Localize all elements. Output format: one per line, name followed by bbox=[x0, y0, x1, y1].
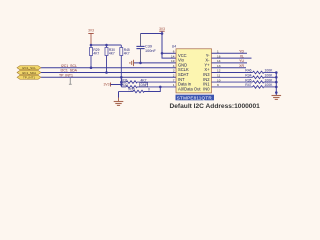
pin names U4 left bbox=[178, 53, 201, 92]
junction rail R31 bbox=[120, 81, 123, 84]
resistor R34 bbox=[212, 76, 277, 79]
highlight STMPE811QTR bbox=[176, 95, 215, 101]
pin numbers U4 left bbox=[171, 50, 175, 88]
cursor artifact bbox=[69, 78, 72, 84]
power 3V3 P3 bbox=[103, 83, 110, 87]
wire 3V3 flag to rail bbox=[111, 84, 122, 86]
resistor R29 bbox=[90, 45, 93, 68]
IC U4 bbox=[176, 49, 212, 93]
svg-text:6: 6 bbox=[173, 50, 175, 54]
svg-text:3V3: 3V3 bbox=[103, 83, 109, 87]
svg-text:R32: R32 bbox=[122, 83, 128, 87]
svg-text:C39: C39 bbox=[145, 44, 152, 48]
wire cap top bbox=[141, 33, 163, 35]
wire top rail bbox=[91, 44, 121, 46]
svg-text:14: 14 bbox=[171, 54, 175, 58]
junction R45/INT bbox=[120, 76, 123, 79]
junction R47 bbox=[275, 86, 278, 89]
svg-text:STMPE811QTR: STMPE811QTR bbox=[177, 95, 213, 100]
pin numbers U4 right bbox=[217, 50, 221, 88]
wire 3V3 vertical to VCC/Vio bbox=[162, 31, 176, 58]
wire X+ to XR bbox=[212, 67, 247, 69]
svg-text:3V3: 3V3 bbox=[159, 27, 165, 31]
svg-text:TP_INT1: TP_INT1 bbox=[23, 76, 35, 80]
svg-text:Default I2C Address:1000001: Default I2C Address:1000001 bbox=[170, 103, 261, 110]
wire Y- to YD bbox=[212, 52, 248, 54]
junction cap bottom bbox=[139, 62, 142, 65]
wire I2C1_SDA line bbox=[41, 72, 176, 74]
svg-text:100K: 100K bbox=[265, 74, 274, 78]
wire Y+ to YU bbox=[212, 62, 248, 64]
svg-text:100nF: 100nF bbox=[145, 49, 156, 53]
svg-text:U4: U4 bbox=[172, 45, 176, 49]
junction R30/SDA bbox=[105, 71, 108, 74]
svg-text:R46: R46 bbox=[245, 69, 251, 73]
wire TP_INT1 line bbox=[41, 76, 176, 78]
wire I2C1_SCL line bbox=[41, 67, 176, 69]
wire A0 strap rail bbox=[120, 77, 122, 87]
resistor R30 bbox=[105, 45, 108, 73]
resistor R33 bbox=[119, 87, 161, 93]
svg-text:0: 0 bbox=[148, 88, 150, 92]
resistor R31 bbox=[121, 81, 176, 84]
junction rail 3V3 flag bbox=[120, 83, 123, 86]
svg-text:100K: 100K bbox=[265, 69, 274, 73]
svg-text:I2C1_SCL: I2C1_SCL bbox=[61, 64, 77, 68]
svg-text:R47: R47 bbox=[245, 83, 251, 87]
svg-text:R31: R31 bbox=[122, 78, 128, 82]
svg-text:R35: R35 bbox=[245, 78, 251, 82]
resistor R35 bbox=[212, 81, 277, 84]
junction R35 bbox=[275, 81, 278, 84]
pin names U4 right bbox=[203, 53, 210, 92]
svg-text:TP_INT1: TP_INT1 bbox=[59, 73, 73, 77]
svg-text:I2C1_SDA: I2C1_SDA bbox=[22, 71, 36, 75]
svg-text:4K7: 4K7 bbox=[93, 52, 99, 56]
svg-text:R34: R34 bbox=[245, 74, 251, 78]
resistor R46 bbox=[212, 71, 277, 74]
junction R34 bbox=[275, 76, 278, 79]
wire right common vertical bbox=[275, 73, 277, 96]
svg-text:4: 4 bbox=[173, 64, 175, 68]
svg-text:R33: R33 bbox=[129, 88, 135, 92]
junction VCC bbox=[161, 52, 164, 55]
svg-text:IN0: IN0 bbox=[203, 86, 210, 91]
wire VCC stub bbox=[162, 52, 176, 54]
svg-text:I2C1_SCL: I2C1_SCL bbox=[22, 66, 36, 70]
power 3V3 P2 bbox=[159, 27, 165, 31]
port I2C1_SDA bbox=[17, 70, 41, 74]
junction cap top rail bbox=[161, 32, 164, 35]
junction R29/SCL bbox=[90, 66, 93, 69]
power 3V3 P1 bbox=[88, 29, 94, 46]
svg-text:XR: XR bbox=[239, 64, 244, 68]
junction R46 bbox=[275, 71, 278, 74]
wire GND rail bbox=[134, 62, 177, 64]
ground G3 bbox=[114, 102, 124, 106]
junction on rail at R29 bbox=[90, 44, 93, 47]
svg-text:YU: YU bbox=[239, 59, 244, 63]
svg-text:3V3: 3V3 bbox=[88, 29, 94, 33]
capacitor C39 bbox=[136, 34, 144, 63]
port I2C1_SCL bbox=[17, 66, 41, 70]
ground G1 (sideways) bbox=[130, 60, 134, 66]
svg-text:2: 2 bbox=[173, 74, 175, 78]
svg-text:YD: YD bbox=[239, 50, 244, 54]
resistor R45 bbox=[120, 45, 123, 77]
ground G2 bbox=[275, 91, 278, 94]
junction on rail at R30 bbox=[105, 44, 108, 47]
port TP_INT1 bbox=[17, 75, 41, 79]
svg-text:100K: 100K bbox=[265, 83, 274, 87]
svg-text:A0/Data Out: A0/Data Out bbox=[178, 86, 201, 91]
svg-text:XL: XL bbox=[240, 54, 244, 58]
resistor R32 bbox=[121, 86, 176, 89]
svg-text:4K7: 4K7 bbox=[109, 52, 115, 56]
svg-text:100K: 100K bbox=[265, 78, 274, 82]
resistor R47 bbox=[212, 86, 277, 89]
svg-text:19: 19 bbox=[171, 59, 175, 63]
wire X- to XL bbox=[212, 57, 252, 59]
svg-text:4K7: 4K7 bbox=[141, 78, 147, 82]
svg-text:I2C1_SDA: I2C1_SDA bbox=[60, 69, 77, 73]
svg-text:3: 3 bbox=[173, 69, 175, 73]
wire R33 to ground bbox=[118, 92, 120, 98]
svg-text:4K7: 4K7 bbox=[124, 52, 130, 56]
